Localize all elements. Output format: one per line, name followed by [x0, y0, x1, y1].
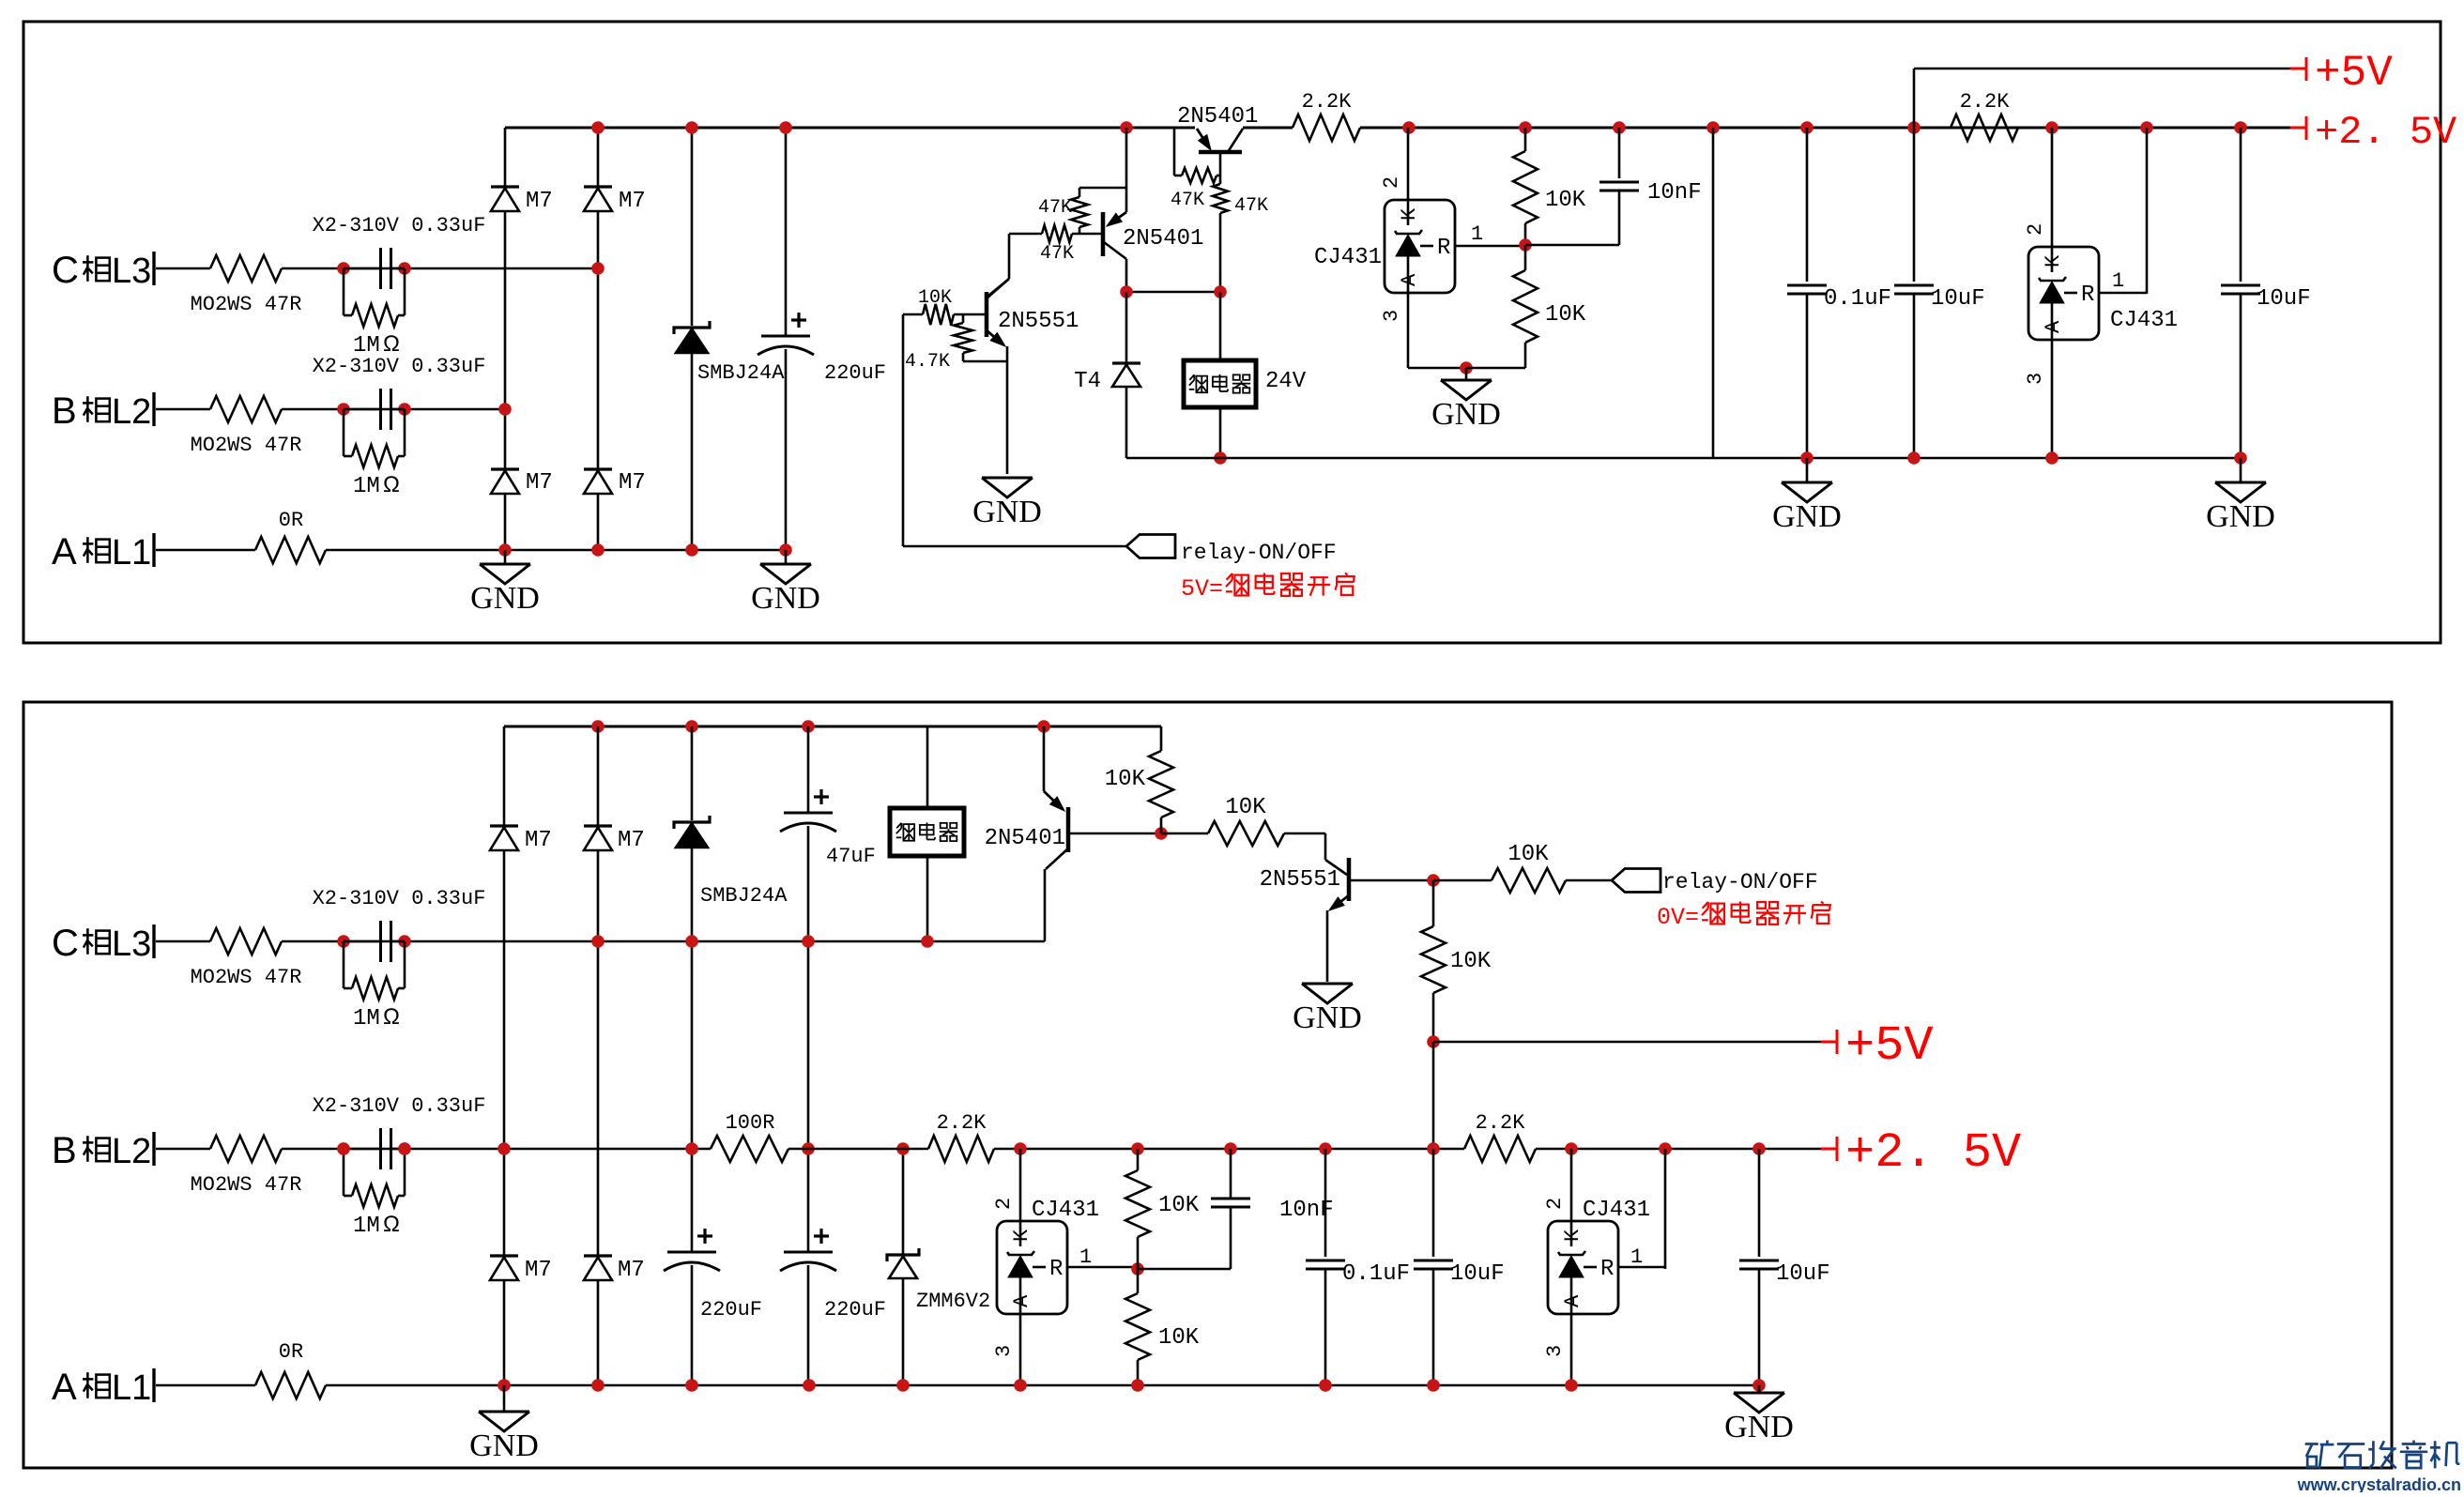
svg-text:L3: L3 — [112, 924, 151, 964]
svg-text:24V: 24V — [1265, 369, 1307, 394]
svg-text:4.7K: 4.7K — [905, 351, 950, 373]
svg-text:A: A — [1398, 273, 1421, 286]
svg-text:220uF: 220uF — [824, 1298, 886, 1321]
svg-text:K: K — [2042, 254, 2065, 267]
svg-text:R: R — [1049, 1257, 1063, 1282]
svg-text:2: 2 — [992, 1198, 1016, 1210]
svg-text:C: C — [52, 250, 79, 291]
svg-text:3: 3 — [2024, 373, 2047, 385]
svg-text:M7: M7 — [619, 189, 646, 214]
svg-text:10K: 10K — [918, 287, 952, 309]
svg-text:0V=: 0V= — [1657, 904, 1699, 931]
svg-text:GND: GND — [751, 581, 820, 616]
svg-text:2.2K: 2.2K — [1960, 90, 2011, 114]
svg-text:10K: 10K — [1450, 949, 1492, 974]
svg-text:1: 1 — [1079, 1245, 1092, 1269]
svg-text:2.2K: 2.2K — [1476, 1111, 1526, 1135]
svg-text:B: B — [52, 1130, 77, 1171]
svg-text:GND: GND — [469, 1428, 539, 1463]
svg-text:CJ431: CJ431 — [1032, 1198, 1099, 1223]
svg-text:Ω: Ω — [383, 1004, 400, 1030]
svg-text:GND: GND — [470, 581, 540, 616]
svg-text:10K: 10K — [1507, 842, 1549, 867]
svg-text:M7: M7 — [526, 189, 553, 214]
svg-text:10uF: 10uF — [1931, 286, 1985, 312]
svg-text:5V=: 5V= — [1181, 575, 1223, 603]
svg-text:L2: L2 — [112, 1132, 151, 1171]
svg-text:3: 3 — [1380, 310, 1403, 322]
svg-text:220uF: 220uF — [700, 1298, 762, 1321]
svg-text:GND: GND — [1293, 1001, 1362, 1035]
svg-text:relay-ON/OFF: relay-ON/OFF — [1181, 541, 1337, 565]
svg-text:GND: GND — [972, 495, 1042, 529]
svg-text:X2-310V 0.33uF: X2-310V 0.33uF — [313, 1094, 486, 1118]
svg-text:L1: L1 — [112, 1368, 151, 1408]
svg-text:100R: 100R — [726, 1111, 775, 1135]
svg-text:MO2WS 47R: MO2WS 47R — [191, 293, 302, 316]
svg-text:47K: 47K — [1038, 197, 1072, 219]
svg-text:2N5551: 2N5551 — [1260, 867, 1340, 893]
svg-text:Ω: Ω — [383, 472, 400, 497]
svg-text:K: K — [1561, 1229, 1584, 1242]
svg-text:10K: 10K — [1225, 795, 1266, 820]
svg-text:L3: L3 — [112, 252, 151, 291]
svg-text:L1: L1 — [112, 533, 151, 573]
svg-text:1M: 1M — [353, 1214, 380, 1239]
svg-text:1: 1 — [2112, 269, 2124, 293]
svg-text:47uF: 47uF — [826, 845, 876, 868]
svg-text:3: 3 — [992, 1345, 1016, 1357]
svg-text:R: R — [1600, 1257, 1614, 1282]
svg-text:10K: 10K — [1105, 767, 1146, 792]
svg-text:0.1uF: 0.1uF — [1342, 1261, 1410, 1287]
svg-text:2: 2 — [1543, 1198, 1567, 1210]
svg-text:SMBJ24A: SMBJ24A — [697, 361, 785, 385]
svg-text:10nF: 10nF — [1647, 180, 1702, 206]
svg-text:ZMM6V2: ZMM6V2 — [916, 1290, 990, 1313]
svg-text:1: 1 — [1471, 222, 1483, 246]
svg-text:10uF: 10uF — [2257, 286, 2311, 312]
svg-text:CJ431: CJ431 — [1583, 1198, 1650, 1223]
svg-text:L2: L2 — [112, 392, 151, 432]
svg-text:Ω: Ω — [383, 331, 400, 357]
svg-text:M7: M7 — [618, 1258, 645, 1283]
svg-text:X2-310V 0.33uF: X2-310V 0.33uF — [313, 214, 486, 237]
svg-text:M7: M7 — [526, 470, 553, 496]
svg-text:220uF: 220uF — [824, 361, 886, 385]
svg-text:B: B — [52, 390, 77, 432]
svg-text:1M: 1M — [353, 1006, 380, 1031]
svg-text:2: 2 — [1380, 176, 1403, 189]
svg-text:T4: T4 — [1074, 369, 1101, 394]
svg-text:2N5401: 2N5401 — [1123, 226, 1203, 252]
svg-text:1: 1 — [1630, 1245, 1643, 1269]
svg-text:relay-ON/OFF: relay-ON/OFF — [1662, 870, 1818, 894]
svg-text:0R: 0R — [279, 509, 303, 532]
svg-text:MO2WS 47R: MO2WS 47R — [191, 966, 302, 989]
svg-text:A: A — [52, 531, 77, 573]
svg-text:R: R — [2081, 283, 2094, 308]
svg-text:47K: 47K — [1234, 195, 1268, 217]
svg-text:2.2K: 2.2K — [937, 1111, 987, 1135]
svg-text:2N5551: 2N5551 — [998, 309, 1079, 334]
svg-text:0.1uF: 0.1uF — [1824, 286, 1891, 312]
svg-text:C: C — [52, 923, 79, 964]
svg-text:47K: 47K — [1040, 243, 1074, 265]
svg-text:2N5401: 2N5401 — [985, 826, 1065, 851]
svg-text:SMBJ24A: SMBJ24A — [700, 884, 788, 908]
svg-text:0R: 0R — [279, 1340, 303, 1364]
svg-text:GND: GND — [2206, 499, 2275, 534]
svg-text:M7: M7 — [619, 470, 646, 496]
svg-text:A: A — [1561, 1294, 1584, 1307]
svg-text:X2-310V 0.33uF: X2-310V 0.33uF — [313, 355, 486, 378]
svg-text:+2. 5V: +2. 5V — [1845, 1125, 2021, 1181]
svg-text:GND: GND — [1772, 499, 1842, 534]
svg-text:K: K — [1398, 207, 1421, 221]
svg-text:MO2WS 47R: MO2WS 47R — [191, 434, 302, 457]
svg-text:2N5401: 2N5401 — [1177, 104, 1258, 130]
svg-text:www.crystalradio.cn: www.crystalradio.cn — [2297, 1475, 2461, 1492]
svg-text:1M: 1M — [353, 474, 380, 499]
svg-text:A: A — [2042, 320, 2065, 333]
svg-text:3: 3 — [1543, 1345, 1567, 1357]
svg-text:K: K — [1010, 1229, 1033, 1242]
svg-text:10K: 10K — [1158, 1325, 1200, 1351]
svg-text:CJ431: CJ431 — [2110, 308, 2178, 333]
svg-text:2: 2 — [2024, 223, 2047, 236]
svg-text:A: A — [52, 1367, 77, 1408]
svg-text:R: R — [1437, 236, 1450, 261]
svg-text:10uF: 10uF — [1450, 1261, 1505, 1287]
svg-text:2.2K: 2.2K — [1302, 90, 1353, 114]
svg-text:X2-310V 0.33uF: X2-310V 0.33uF — [313, 887, 486, 910]
svg-text:10K: 10K — [1545, 188, 1586, 213]
svg-text:Ω: Ω — [383, 1212, 400, 1237]
svg-text:CJ431: CJ431 — [1314, 245, 1382, 270]
svg-text:10uF: 10uF — [1776, 1261, 1830, 1287]
svg-text:+2. 5V: +2. 5V — [2315, 110, 2456, 155]
svg-text:M7: M7 — [525, 828, 552, 853]
svg-text:M7: M7 — [618, 828, 645, 853]
svg-text:MO2WS 47R: MO2WS 47R — [191, 1173, 302, 1197]
svg-text:A: A — [1010, 1294, 1033, 1307]
svg-text:GND: GND — [1431, 397, 1501, 432]
svg-text:10K: 10K — [1545, 302, 1586, 328]
svg-text:10K: 10K — [1158, 1193, 1200, 1218]
svg-text:M7: M7 — [525, 1258, 552, 1283]
svg-text:+5V: +5V — [1845, 1018, 1934, 1074]
svg-text:GND: GND — [1724, 1410, 1794, 1444]
svg-text:47K: 47K — [1171, 190, 1204, 211]
svg-text:+5V: +5V — [2315, 49, 2393, 98]
